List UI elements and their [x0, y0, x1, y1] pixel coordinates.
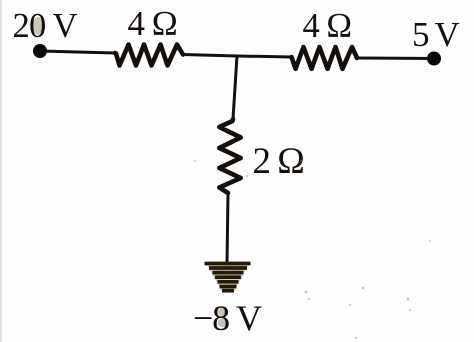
node C (5 V terminal dot) — [427, 52, 441, 66]
svg-text:4 Ω: 4 Ω — [128, 4, 177, 43]
wire (node B down to R3) — [233, 56, 237, 119]
scan artifact: grey counters of "8" — [218, 308, 228, 317]
svg-text:2 Ω: 2 Ω — [253, 141, 304, 182]
svg-text:4 Ω: 4 Ω — [303, 7, 352, 45]
scan artifact: grey counter of "0" — [32, 17, 45, 35]
wire (R3 to ground) — [227, 193, 228, 264]
scan edge shading left — [0, 0, 2, 342]
scan specks — [194, 160, 431, 339]
resistor R2 (4 ohm, right) — [292, 47, 358, 69]
wire (left terminal to R1) — [40, 51, 115, 53]
svg-text:−8 V: −8 V — [193, 298, 262, 338]
wire (R1 to node B to R2) — [183, 55, 292, 58]
resistor R1 (4 ohm, left) — [115, 45, 183, 66]
wire (R2 to 5 V terminal) — [357, 57, 434, 61]
node A (20 V terminal dot) — [33, 44, 47, 58]
svg-text:5 V: 5 V — [412, 15, 460, 54]
svg-text:20 V: 20 V — [13, 7, 78, 45]
resistor R3 (2 ohm, vertical) — [219, 119, 240, 193]
ground (tapered earth symbol, -8 V rail) — [205, 263, 251, 292]
